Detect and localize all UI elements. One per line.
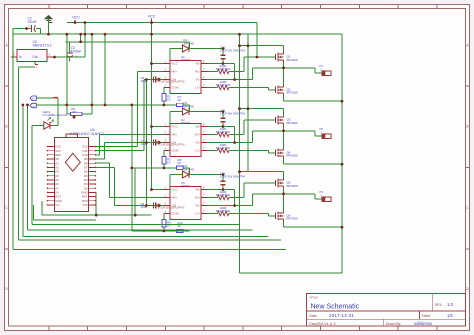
svg-text:0.1UF,50V,20%,(PTH): 0.1UF,50V,20%,(PTH) [158,142,184,146]
junction phase node [282,67,285,70]
wire phase node [253,125,323,149]
capacitor C11 0.1UF bootstrap [220,108,245,126]
junction bus3 top [22,104,25,107]
svg-text:1N4148: 1N4148 [184,41,195,45]
junction cap bus [145,204,148,207]
wire VCC bus vertical [151,22,153,190]
junction cathode node [222,173,225,176]
wire 12V drain bus [247,34,249,172]
wire VCC pin ch1 [152,63,164,65]
pin D11 (U4 right) [83,149,97,153]
wire signal D7 to driver [95,167,163,205]
svg-text:LO: LO [195,86,200,90]
junction phase node [282,130,285,133]
wire drain rail phase 2 [240,109,284,116]
svg-text:1K: 1K [167,161,171,165]
svg-text:VCC: VCC [171,125,178,129]
svg-text:1/1: 1/1 [447,313,454,318]
svg-text:COM: COM [171,149,179,153]
wire LED to 5V row [57,98,59,125]
capacitor C4 10uF [141,139,161,146]
wire big loop [240,34,343,273]
resistor LO gate 100R [208,80,269,90]
svg-text:LT-2102BC-YELLOW: LT-2102BC-YELLOW [43,113,68,117]
LED1 LT-2102BC-YELLOW [32,110,68,129]
svg-text:Out: Out [32,55,37,59]
svg-text:AMS1117-5.0: AMS1117-5.0 [33,44,52,48]
junction gnd rail [104,104,107,107]
diode D1 1N4148 [183,38,195,52]
svg-text:Vin: Vin [55,203,60,207]
wire VS row to phase [208,68,253,80]
svg-text:0.1UF,50V,20%,(PTH): 0.1UF,50V,20%,(PTH) [158,205,184,209]
resistor R10 2K [177,221,190,233]
wire HO gate jog [244,120,276,135]
svg-text:HIN: HIN [171,133,176,137]
pin D3 (U4 right) [84,182,96,186]
svg-text:Sheet:: Sheet: [422,314,432,318]
pin D6 (U4 right) [84,170,96,174]
svg-text:EasyEDA V4.11.9: EasyEDA V4.11.9 [310,322,336,326]
pin A4 (U4 left) [47,174,60,178]
junction cathode node [222,47,225,50]
resistor R7 2K [177,95,190,107]
junction rail [84,33,87,36]
wire D1 cathode feed [189,42,223,49]
svg-text:+: + [76,55,78,59]
power flag VCC (top-left) [67,16,257,58]
junction ground-rail [47,33,50,36]
wire D2 anode [170,112,182,127]
wire D1 anode [170,49,182,64]
wire HO gate jog [244,183,276,198]
svg-text:VS: VS [195,141,199,145]
junction VS tee [233,141,236,144]
junction cap bus [145,78,148,81]
pin A0 (U4 left) [47,157,60,161]
svg-text:HIN: HIN [171,196,176,200]
svg-text:VS: VS [195,204,199,208]
svg-text:1K: 1K [167,224,171,228]
svg-text:VS: VS [195,78,199,82]
junction rail x66.8 [66,33,69,36]
svg-text:HO: HO [195,196,200,200]
wire phase node [253,188,323,212]
wire left bus 4 [28,105,253,230]
pin D10 (U4 right) [82,153,96,157]
capacitor C10 0.1UF bootstrap [220,45,245,63]
resistor R9 1K [162,214,171,231]
transistor Q5 IRF3205 [276,179,298,188]
wire D3 cathode feed [189,168,223,175]
pin TX0 (U4 right) [82,203,96,207]
wire VB row [208,190,235,206]
bus entry mark [53,97,58,99]
junction drain rail [238,107,241,110]
wire signal D11 to driver [95,80,163,151]
connector P3 [320,190,332,201]
wire VCC pin ch3 [152,189,164,191]
junction out pin [53,56,56,59]
junction feed-rail [91,33,94,36]
wire left bus 3 [23,105,269,236]
wire phase node [253,62,323,86]
junction R bottom [163,104,166,107]
junction bus4 top [26,104,29,107]
svg-text:+: + [28,25,30,29]
junction feed-gnd rail [91,104,94,107]
pin D8 (U4 right) [84,161,96,165]
wire bus drop x135 [134,168,136,215]
svg-text:2K: 2K [178,161,182,165]
title block [307,294,466,327]
wire gnd pin drop [95,192,97,215]
port +5V [30,96,36,101]
junction VCC riser [84,21,87,24]
svg-text:HO: HO [195,133,200,137]
wire regulator out to VCC riser [53,56,85,58]
wire feed x91.9 [91,34,93,114]
wire VB row [208,127,235,143]
pin D5 (U4 right) [84,174,96,178]
wire D3 anode [170,175,182,190]
wire source to gnd bus [284,94,343,101]
junction source bus [341,100,344,103]
transistor Q6 IRF3205 [276,211,298,220]
junction R bottom [163,230,166,233]
resistor R5 10K [67,34,92,115]
wire C-bus vertical x146 [145,80,147,206]
svg-text:1N4148: 1N4148 [184,167,195,171]
junction cathode node [222,110,225,113]
junction gnd bus mid [131,167,134,170]
capacitor C2 100uF [28,17,37,33]
svg-text:VCC: VCC [171,62,178,66]
transistor Q2 IRF3205 [276,85,298,94]
pin D9 (U4 right) [84,157,96,161]
svg-text:Drawn By:: Drawn By: [386,322,401,326]
transistor Q3 IRF3205 [276,116,298,125]
junction drain bus top [247,44,250,47]
mcu U4 ARDUINO NANO [54,128,104,212]
pin REF (U4 left) [47,153,62,157]
transistor Q1 IRF3205 [276,53,298,62]
pin A5 (U4 left) [47,178,60,182]
svg-text:In: In [19,55,22,59]
wire LO gate jog [269,151,276,153]
wire 12V input rail [13,29,40,35]
resistor R8 2K [177,158,190,170]
resistor R2 1K [162,88,171,105]
pin GND (U4 left) [47,199,62,203]
connector P1 [320,64,332,75]
svg-text:VB: VB [195,62,199,66]
wire com rail bottom [132,230,184,232]
svg-text:REV: REV [435,303,443,307]
wire MCU vin staircase [33,205,96,220]
resistor HO gate 100R [208,64,245,74]
junction drain bus mid [247,107,250,110]
junction gate feed [256,56,259,59]
pin RST (U4 left) [47,195,62,199]
capacitor C5 10uF [141,76,161,83]
resistor HO gate 100R [208,190,245,200]
junction VS tee [233,204,236,207]
pin D7 (U4 right) [84,165,96,169]
wire rail y42 [66,34,190,42]
op-amp U5 IR2301 [163,181,207,220]
junction rail [238,33,241,36]
junction drain rail [238,44,241,47]
junction VB cap [222,62,225,65]
junction source bus [341,226,344,229]
svg-text:1K: 1K [167,98,171,102]
diode D2 1N4148 [183,101,195,115]
junction source bus [341,163,344,166]
wire VCC pin ch2 [152,126,164,128]
svg-text:2K: 2K [178,98,182,102]
svg-text:2K: 2K [178,224,182,228]
wire source to gnd bus [284,220,343,227]
pin A3 (U4 left) [47,170,60,174]
wire signal D12 to driver [95,72,163,147]
svg-text:VCC: VCC [72,16,80,20]
junction R5 node [73,116,76,119]
wire left bus 1 [13,29,286,250]
pin GND (U4 right) [81,190,96,194]
pin D13 (U4 left) [47,145,61,149]
wire signal D8 to driver [95,163,163,197]
svg-text:LO: LO [195,212,200,216]
wire com rail ch2 [132,167,176,169]
wire left bus 5 [32,126,239,225]
wire VCC to regulator out [84,23,86,58]
pin RX0 (U4 right) [82,199,96,203]
svg-text:IRF3205: IRF3205 [287,121,298,125]
pin A7 (U4 left) [47,186,60,190]
junction VB cap [222,125,225,128]
junction C2 left [25,27,28,30]
wire HO gate jog [244,57,276,72]
pin 3V3 (U4 left) [47,149,61,153]
svg-text:LO: LO [195,149,200,153]
junction staircase [134,214,137,217]
svg-text:1.0: 1.0 [447,302,454,307]
junction gnd rail [66,104,69,107]
svg-text:xxlildenxx: xxlildenxx [414,321,433,326]
ground GND1 [45,16,53,35]
svg-text:IRF3205: IRF3205 [287,154,298,158]
svg-text:IRF3205: IRF3205 [287,217,298,221]
pin A2 (U4 left) [47,165,60,169]
junction cap bus [145,141,148,144]
junction rail y42 [79,41,82,44]
svg-text:G: G [32,106,34,108]
svg-text:COM: COM [171,86,179,90]
svg-text:IRF3205: IRF3205 [287,184,298,188]
svg-text:VCC: VCC [171,188,178,192]
wire com rail ch3 [132,230,176,232]
svg-text:100uF: 100uF [28,20,37,24]
capacitor C3 4700uF [67,42,82,62]
junction drain rail [238,170,241,173]
svg-text:IRF3205: IRF3205 [287,91,298,95]
wire VB row [208,64,235,80]
junction VS tee [233,78,236,81]
wire main rail y34 [13,33,342,35]
junction gnd rail [131,104,134,107]
capacitor C6 10uF [141,202,161,209]
junction rail [79,33,82,36]
junction VCC bus [150,188,153,191]
wire gnd bus x131.8 [131,105,133,231]
capacitor C12 0.1UF bootstrap [220,171,245,189]
op-amp U1 IR2301 [163,55,207,94]
svg-text:VB: VB [195,125,199,129]
junction VCC flag [74,21,77,24]
svg-text:HIN: HIN [171,70,176,74]
pin 5V (U4 left) [47,190,59,194]
pin D2 (U4 right) [84,186,96,190]
wire VS row to phase [208,194,253,206]
wire signal D9 to driver [95,143,163,160]
wire left bus 2 [18,67,281,240]
pin Vin (U4 left) [47,203,60,207]
junction VCC driver bus tap [150,21,153,24]
op-amp U2 IR2301 [163,118,207,157]
wire signal D10 to driver [95,135,163,155]
transistor Q4 IRF3205 [276,148,298,157]
junction VCC bus [150,125,153,128]
pin A1 (U4 left) [47,161,60,165]
resistor HO gate 100R [208,127,245,137]
regulator U3 AMS1117-5.0 [11,40,53,69]
wire source to gnd bus [284,157,343,164]
diode D3 1N4148 [183,164,195,178]
svg-text:COM: COM [171,212,179,216]
svg-text:TX0: TX0 [82,203,88,207]
junction rail [104,33,107,36]
wire com rail ch1 [0,0,1,1]
svg-text:IRF3205: IRF3205 [287,58,298,62]
wire port 5V row [36,97,58,99]
wire riser x105 [104,34,106,105]
svg-text:0.1UF,50V,20%,(PTH): 0.1UF,50V,20%,(PTH) [158,79,184,83]
svg-text:2017-12-31: 2017-12-31 [329,313,354,318]
junction staircase [95,214,98,217]
pin A6 (U4 left) [47,182,60,186]
port GND [30,103,36,108]
junction VB cap [222,188,225,191]
junction phase node [282,193,285,196]
connector P2 [320,127,332,138]
power flag VCC (driver bus) [148,15,156,23]
svg-text:TITLE:: TITLE: [310,296,319,300]
svg-text:1N4148: 1N4148 [184,104,195,108]
svg-text:VCC: VCC [148,15,156,19]
pin RST (U4 right) [82,195,96,199]
svg-text:HO: HO [195,70,200,74]
wire VS row to phase [208,131,253,143]
wire drain rail phase 3 [240,172,284,179]
wire LO gate jog [269,214,276,216]
resistor LO gate 100R [208,143,269,153]
wire drain rail phase 1 [240,46,284,53]
svg-text:Date:: Date: [310,314,318,318]
wire MCU gnd staircase [42,201,151,215]
svg-text:VB: VB [195,188,199,192]
junction dot overlay [22,21,344,232]
pin D4 (U4 right) [84,178,96,182]
junction VCC bus rail [150,33,153,36]
resistor LO gate 100R [208,206,269,216]
svg-text:New Schematic: New Schematic [311,304,360,311]
junction VCC bus [150,62,153,65]
resistor R3 1K [162,151,171,168]
wire D2 cathode feed [189,105,223,112]
junction R bottom [163,167,166,170]
wire LO gate jog [269,88,276,90]
pin D12 (U4 right) [82,145,96,149]
wire gnd rail y105 (long) [36,104,176,106]
